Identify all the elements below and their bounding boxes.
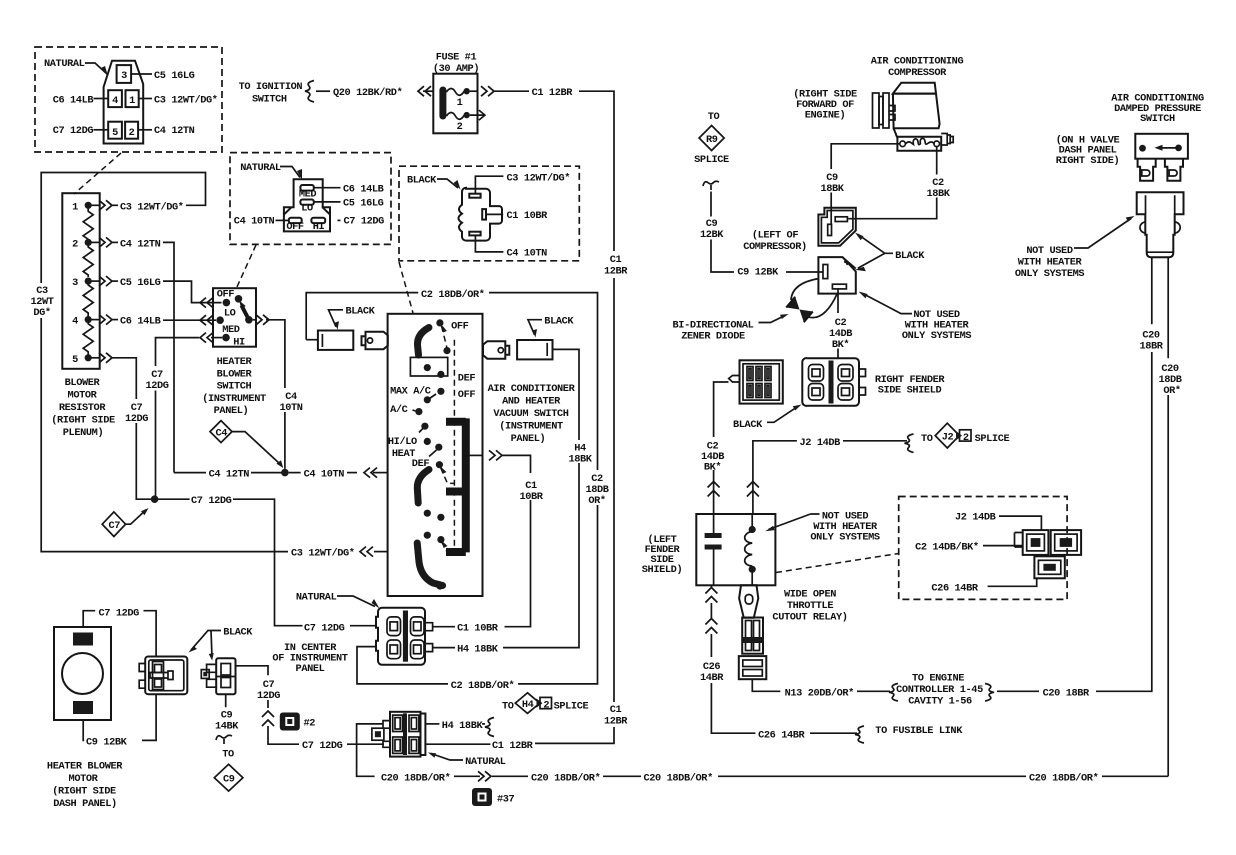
svg-text:TO FUSIBLE LINK: TO FUSIBLE LINK (875, 725, 963, 737)
switch LO terminal (216, 308, 235, 325)
wire C9 14BK to C9 splice (225, 694, 227, 707)
pressure switch prong left (1138, 159, 1156, 181)
svg-text:TO: TO (708, 111, 720, 123)
svg-text:C7 12DG: C7 12DG (191, 495, 232, 507)
pin 2 node (72, 238, 92, 250)
wire J2 14DB (753, 434, 914, 514)
half bracket (ignition) (305, 81, 314, 102)
svg-text:C7: C7 (109, 520, 121, 532)
wire C20 18BR (pressure switch left) (1150, 258, 1153, 692)
svg-text:12DG: 12DG (125, 413, 148, 425)
dashed leader box B to heater switch (237, 245, 257, 288)
pin slot C4 (469, 232, 480, 236)
page marker #2 (280, 713, 315, 731)
wire C9 12BK (motor bottom bracket) (83, 694, 156, 748)
svg-text:NATURAL: NATURAL (296, 592, 337, 604)
svg-text:ZENER DIODE: ZENER DIODE (681, 331, 745, 343)
svg-text:12BR: 12BR (604, 716, 628, 728)
wire H4 18BK from right connector (433, 349, 579, 655)
svg-text:RIGHT SIDE): RIGHT SIDE) (1056, 155, 1120, 167)
wire C4 12TN from pin2 down (92, 237, 175, 472)
svg-text:C4 10TN: C4 10TN (507, 247, 548, 259)
svg-text:BLOWER: BLOWER (217, 368, 253, 380)
vac switch small rect port (410, 357, 447, 376)
svg-text:C7 12DG: C7 12DG (99, 608, 140, 620)
svg-text:PANEL): PANEL) (214, 405, 249, 417)
label C1 10BR (vertical) (519, 480, 543, 503)
connector black single (left of vac switch) (306, 331, 353, 350)
svg-text:#2: #2 (304, 718, 316, 730)
svg-text:2: 2 (963, 432, 969, 444)
svg-text:BK*: BK* (704, 462, 722, 474)
relay capacitor plates (705, 514, 722, 585)
wire C9 12BK to plug (711, 192, 823, 279)
wire H4 18BK (relay connector to splice) (425, 718, 494, 737)
label C1 12BR (vertical, upper) (604, 254, 628, 278)
svg-text:2: 2 (457, 121, 463, 133)
detail connector cluster (1015, 530, 1082, 578)
svg-text:10BR: 10BR (519, 491, 543, 503)
label C7 12DG (pin5 wire) (125, 402, 148, 425)
heater blower motor M1 (54, 627, 111, 720)
wire MED pin to C6 14LB (314, 183, 384, 195)
svg-text:THROTTLE: THROTTLE (787, 600, 833, 612)
label C7 12DG (HI pin) (338, 216, 385, 228)
connector plug lower (compressor harness) (818, 257, 855, 294)
connector view box (natural, blower resistor connector) (35, 47, 222, 152)
svg-text:NATURAL: NATURAL (240, 162, 281, 174)
wire pin3 to C5 16LG (131, 70, 195, 82)
instrument connector caption (272, 642, 347, 675)
svg-text:HI: HI (233, 336, 245, 348)
zener diode VR1 (786, 297, 813, 323)
svg-text:12BK: 12BK (700, 229, 724, 241)
svg-text:OFF: OFF (286, 221, 304, 233)
svg-text:C4 12TN: C4 12TN (209, 469, 250, 481)
connector fender black 4-pin (729, 360, 783, 403)
svg-text:AIR CONDITIONER: AIR CONDITIONER (488, 383, 576, 395)
label NOT USED WITH HEATER ONLY SYSTEMS (pressure switch) (1015, 216, 1135, 280)
break symbol (C9 12BK) (703, 181, 719, 190)
svg-text:COMPRESSOR): COMPRESSOR) (743, 241, 807, 253)
svg-text:C2 18DB/OR*: C2 18DB/OR* (451, 680, 515, 692)
svg-text:18BK: 18BK (820, 183, 844, 195)
wire C3 12WT/DG* (box C) (475, 173, 570, 194)
label RIGHT FENDER SIDE SHIELD (875, 374, 946, 397)
vac switch lever low (442, 541, 455, 553)
svg-text:SHIELD): SHIELD) (642, 564, 682, 576)
label NATURAL (instrument connector) (296, 592, 380, 609)
svg-text:C26 14BR: C26 14BR (931, 582, 978, 594)
svg-text:WIDE OPEN: WIDE OPEN (784, 589, 836, 601)
relay plug below (739, 585, 758, 618)
svg-text:1: 1 (72, 201, 78, 213)
svg-text:C7 12DG: C7 12DG (302, 740, 343, 752)
svg-text:12DG: 12DG (145, 380, 168, 392)
label C2 14DB BK* (829, 317, 852, 351)
label BLACK (right connector) (528, 316, 574, 338)
svg-text:2: 2 (543, 700, 549, 712)
heater switch caption (202, 356, 266, 417)
WOT cutout relay K1 (696, 514, 775, 585)
wire C2 18DB/OR* top (306, 289, 597, 692)
svg-text:FUSE #1: FUSE #1 (436, 52, 477, 64)
label NATURAL (box A) (44, 58, 108, 76)
svg-text:H4 18BK: H4 18BK (442, 720, 484, 732)
svg-text:12BR: 12BR (604, 266, 628, 278)
vac switch internal labels (388, 321, 475, 470)
svg-text:HI: HI (313, 221, 325, 233)
svg-text:14BR: 14BR (700, 672, 724, 684)
wire C4 10TN (box C) (475, 235, 547, 259)
svg-text:18BK: 18BK (568, 454, 592, 466)
svg-text:ONLY SYSTEMS: ONLY SYSTEMS (902, 330, 972, 342)
blower motor resistor body (62, 193, 99, 369)
label C2 18DB OR* (vertical) (585, 473, 608, 507)
vac switch label pointer lines (413, 394, 437, 457)
vac switch internal valve track (dashed) (453, 340, 455, 547)
svg-text:C6 14LB: C6 14LB (343, 183, 384, 195)
svg-text:OFF: OFF (217, 289, 235, 301)
label TO (C9 splice) (222, 749, 234, 761)
svg-text:C7 12DG: C7 12DG (304, 623, 345, 635)
svg-text:J2: J2 (942, 432, 954, 444)
vac switch lever top (442, 326, 448, 349)
connector body A (104, 61, 144, 144)
heater blower switch box (213, 288, 256, 347)
svg-text:C3 12WT/DG*: C3 12WT/DG* (120, 201, 184, 213)
label C20 18DB OR* (vertical) (1158, 363, 1181, 397)
compressor body (893, 83, 941, 151)
pin slot C3 (469, 194, 480, 198)
detail wire C26 14BR (931, 578, 1036, 594)
wire C20 18DB/OR* (pressure switch right) (1167, 258, 1169, 777)
wire switch output to C4 10TN vertical (253, 315, 285, 469)
connector body B (284, 179, 330, 231)
page marker #37 (472, 788, 515, 806)
pin 5 node (72, 354, 92, 366)
pin 1 (126, 90, 139, 107)
svg-text:SWITCH: SWITCH (1140, 113, 1175, 125)
svg-text:C4 12TN: C4 12TN (154, 125, 195, 137)
pin 3 (117, 65, 132, 83)
svg-text:C2 14DB/BK*: C2 14DB/BK* (915, 542, 979, 554)
wire C1 12BR from fuse pin1 (470, 86, 614, 743)
fuse element bar (439, 87, 446, 120)
svg-text:R9: R9 (706, 134, 718, 146)
svg-text:LO: LO (301, 202, 313, 214)
svg-text:RESISTOR: RESISTOR (59, 402, 106, 414)
wire C7 12DG (motor top bracket) (83, 608, 156, 657)
svg-text:C26 14BR: C26 14BR (758, 729, 805, 741)
svg-text:BLACK: BLACK (223, 627, 253, 639)
svg-text:(LEFT OF: (LEFT OF (752, 230, 798, 242)
svg-text:PANEL: PANEL (296, 663, 325, 675)
svg-text:J2 14DB: J2 14DB (955, 512, 996, 524)
svg-text:C7 12DG: C7 12DG (53, 125, 94, 137)
label ON H VALVE DASH PANEL RIGHT SIDE (1056, 134, 1120, 167)
wire C7 12DG to pin 5 (53, 125, 108, 137)
splice symbol R9 (694, 126, 729, 167)
label RIGHT SIDE FORWARD OF ENGINE (793, 89, 857, 122)
svg-text:12DG: 12DG (257, 690, 280, 702)
svg-text:ONLY SYSTEMS: ONLY SYSTEMS (1015, 268, 1085, 280)
label LEFT FENDER SIDE SHIELD (642, 534, 682, 576)
label TO IGNITION SWITCH (239, 81, 303, 106)
svg-text:ENGINE): ENGINE) (805, 110, 845, 122)
junction node C4 (281, 469, 289, 477)
svg-text:OR*: OR* (588, 495, 606, 507)
label WIDE OPEN THROTTLE CUTOUT RELAY (772, 589, 847, 624)
svg-text:ONLY SYSTEMS: ONLY SYSTEMS (810, 532, 880, 544)
connector fender natural 4-pin (802, 358, 865, 406)
svg-text:2: 2 (129, 127, 135, 139)
relay coil (745, 514, 756, 585)
svg-text:TO ENGINE: TO ENGINE (912, 673, 964, 685)
svg-text:DEF: DEF (458, 373, 476, 385)
wire C3 12WT/DG* from pin1 up-around left side (41, 173, 288, 552)
pin 5 (108, 122, 122, 139)
pin 4 (108, 90, 122, 107)
fuse F1 label (433, 52, 479, 76)
svg-text:HEATER BLOWER: HEATER BLOWER (47, 761, 123, 773)
svg-text:WITH HEATER: WITH HEATER (1018, 257, 1083, 269)
label C26 14BR (vertical) (700, 661, 724, 684)
splice symbol C7 (102, 508, 148, 537)
svg-text:C4 12TN: C4 12TN (120, 238, 161, 250)
vacuum switch body (388, 314, 483, 596)
svg-text:SPLICE: SPLICE (975, 433, 1010, 445)
connector view box C (black, vacuum switch connector) (399, 166, 579, 261)
svg-text:C1 12BR: C1 12BR (492, 740, 534, 752)
svg-text:PLENUM): PLENUM) (63, 427, 103, 439)
svg-text:CAVITY 1-56: CAVITY 1-56 (908, 696, 972, 708)
pin 1 node (72, 201, 92, 213)
pin LO (300, 200, 313, 215)
compressor pulley (873, 93, 896, 128)
dashed leader box A to resistor (74, 153, 121, 194)
svg-text:DG*: DG* (33, 307, 51, 319)
label LEFT OF COMPRESSOR (743, 230, 807, 254)
label C9 18BK (820, 172, 844, 195)
label C7 12DG (HI wire) (145, 369, 168, 392)
svg-text:4: 4 (112, 95, 118, 107)
svg-text:10TN: 10TN (279, 402, 302, 414)
svg-text:4: 4 (72, 316, 78, 328)
pin slot C1 (482, 209, 486, 220)
svg-text:BLACK: BLACK (733, 419, 763, 431)
resistor element zigzag 1-2 (83, 205, 93, 242)
svg-text:C1 10BR: C1 10BR (507, 210, 549, 222)
svg-text:1: 1 (457, 97, 463, 109)
svg-text:OR*: OR* (1163, 385, 1181, 397)
svg-text:MOTOR: MOTOR (68, 390, 98, 402)
svg-text:SIDE SHIELD: SIDE SHIELD (878, 385, 942, 397)
svg-text:C4 10TN: C4 10TN (304, 469, 345, 481)
svg-text:J2 14DB: J2 14DB (800, 437, 841, 449)
wire C7 12DG (harness to relay connector) (236, 666, 385, 752)
pin HI (311, 218, 325, 233)
svg-text:5: 5 (112, 127, 118, 139)
svg-text:C4: C4 (216, 428, 228, 440)
svg-text:2: 2 (72, 238, 78, 250)
connector relay 4-pin grid (372, 712, 426, 757)
svg-text:C5 16LG: C5 16LG (154, 70, 195, 82)
svg-text:C20 18DB/OR*: C20 18DB/OR* (644, 772, 714, 784)
pin OFF (286, 218, 304, 233)
svg-text:SWITCH: SWITCH (252, 94, 287, 106)
switch rotor lever (235, 295, 253, 324)
label BLACK (fender connector) (733, 405, 802, 432)
svg-text:CUTOUT RELAY): CUTOUT RELAY) (772, 612, 847, 624)
svg-text:MAX A/C: MAX A/C (390, 386, 431, 398)
wire C2 18BK (compressor to plug) (848, 147, 937, 219)
svg-text:C3 12WT/DG*: C3 12WT/DG* (507, 173, 571, 185)
svg-text:NATURAL: NATURAL (465, 756, 506, 768)
label C1 12BR (vertical, lower) (604, 704, 628, 728)
wire C6 14LB from pin4 to heater switch LO (92, 315, 217, 328)
label NATURAL (box B) (240, 162, 302, 180)
resistor caption (51, 377, 115, 439)
connector black square (motor) (139, 657, 187, 695)
svg-text:C9 12BK: C9 12BK (86, 736, 128, 748)
connector C26 stack lower (739, 656, 767, 679)
svg-text:BK*: BK* (832, 339, 850, 351)
vac switch mid arc (417, 470, 429, 504)
vac switch top arc (417, 328, 429, 356)
fuse element 2 (446, 112, 470, 133)
pressure switch connector (1137, 192, 1184, 257)
svg-text:C20 18DB/OR*: C20 18DB/OR* (1029, 772, 1099, 784)
connector body C (459, 188, 503, 241)
svg-text:1: 1 (129, 95, 135, 107)
wire C20 18DB/OR* (relay connector drop) (357, 724, 383, 776)
connector instrument panel 4-pin (376, 608, 433, 665)
svg-text:SPLICE: SPLICE (694, 154, 729, 166)
label C3 12WT DG* (left vertical) (30, 285, 53, 319)
label C2 14DB BK* (vertical) (701, 441, 724, 474)
pressure switch S1 body (1135, 134, 1188, 159)
svg-text:TO: TO (921, 433, 933, 445)
pin 2 (125, 122, 138, 139)
svg-text:C20 18DB/OR*: C20 18DB/OR* (381, 772, 451, 784)
svg-text:3: 3 (121, 70, 127, 82)
svg-text:BLACK: BLACK (544, 316, 574, 328)
svg-text:NOT USED: NOT USED (1026, 245, 1072, 257)
vac switch bottom arc (417, 543, 442, 586)
detail wire J2 14DB (955, 512, 1041, 531)
wire C26 14BR (relay left leg) (705, 585, 963, 743)
switch HI label (233, 336, 245, 348)
svg-text:#37: #37 (497, 794, 515, 806)
wire C7 12DG from pin5 down (92, 353, 152, 499)
splice symbol C4 (210, 421, 283, 468)
svg-text:CONTROLLER 1-45: CONTROLLER 1-45 (896, 684, 983, 696)
detail wire C2 14DB/BK* (915, 542, 1023, 554)
label NOT USED WITH HEATER ONLY SYSTEMS (plug) (859, 292, 972, 343)
svg-text:HEATER: HEATER (217, 356, 253, 368)
wire C2 14DB/BK* (plug to fender connector) (837, 289, 839, 358)
pressure switch prong right (1165, 159, 1183, 181)
svg-text:C20 18DB/OR*: C20 18DB/OR* (531, 772, 601, 784)
svg-text:VACUUM SWITCH: VACUUM SWITCH (493, 408, 568, 420)
label BLACK (box C) (407, 174, 461, 189)
resistor element zigzag 2-3 (83, 242, 93, 277)
spade lug left (362, 332, 388, 350)
svg-text:C9: C9 (223, 774, 235, 786)
svg-text:C20 18BR: C20 18BR (1043, 687, 1090, 699)
label BLACK (motor connectors) (189, 627, 254, 661)
wire C4 10TN to OFF pin (234, 216, 289, 228)
compressor terminals and coil (900, 138, 940, 146)
wire C3 label + arrow into vacuum switch (291, 547, 388, 560)
compressor caption (871, 56, 964, 80)
svg-text:BLACK: BLACK (346, 306, 376, 318)
svg-text:COMPRESSOR: COMPRESSOR (888, 67, 947, 79)
connector view box B (natural, heater switch connector) (230, 153, 391, 245)
svg-text:BLOWER: BLOWER (65, 377, 101, 389)
wire C6 14LB to pin 4 (53, 94, 108, 106)
svg-text:TO IGNITION: TO IGNITION (239, 81, 303, 93)
svg-text:3: 3 (72, 277, 78, 289)
pressure switch caption (1111, 93, 1204, 126)
svg-text:C5 16LG: C5 16LG (343, 197, 384, 209)
label C2 18BK (926, 177, 950, 200)
svg-text:14BK: 14BK (215, 721, 239, 733)
svg-text:(INSTRUMENT: (INSTRUMENT (202, 393, 266, 405)
label TO H4 2 SPLICE (502, 693, 588, 714)
svg-text:5: 5 (72, 354, 78, 366)
label H4 18BK (vertical) (568, 443, 592, 466)
label C9 12BK (vertical) (700, 218, 724, 241)
vac switch lever def (441, 467, 455, 483)
pin 3 node (72, 277, 92, 289)
svg-text:C3 12WT/DG*: C3 12WT/DG* (154, 94, 218, 106)
resistor element zigzag 4-5 (83, 320, 93, 355)
label TO R9 SPLICE (708, 111, 720, 123)
pin MED (299, 185, 317, 201)
connector plug upper (compressor clutch) (818, 208, 855, 246)
svg-text:(RIGHT SIDE: (RIGHT SIDE (51, 415, 115, 427)
svg-text:MOTOR: MOTOR (69, 773, 99, 785)
svg-text:PANEL): PANEL) (511, 433, 546, 445)
wire C4 12TN horizontal run to junction (174, 469, 283, 481)
vac switch port dots (415, 319, 450, 589)
svg-text:H4 18BK: H4 18BK (457, 644, 499, 656)
wire C1 10BR from vac switch DEF output (433, 450, 531, 634)
motor caption (47, 761, 123, 811)
svg-text:DASH PANEL): DASH PANEL) (53, 798, 117, 810)
break (J2 wire) (747, 482, 759, 497)
wire N13 20DB/OR* to engine controller (752, 673, 1152, 708)
break (C2 wire) (708, 482, 720, 497)
label NATURAL (relay connector) (428, 753, 506, 769)
svg-text:BLACK: BLACK (895, 250, 925, 262)
label BLACK (compressor plugs) (855, 233, 925, 272)
svg-text:A/C: A/C (390, 404, 408, 416)
label NOT USED WITH HEATER ONLY SYSTEMS (relay) (765, 511, 880, 544)
connector C26 stack upper (742, 618, 763, 654)
wire C20 18DB/OR* bottom run (381, 771, 1168, 784)
break (C7 12DG wire) (262, 711, 274, 726)
compressor rear fitting (941, 134, 953, 146)
svg-text:SPLICE: SPLICE (554, 701, 589, 713)
label C9 14BK (215, 710, 239, 733)
svg-text:C1 10BR: C1 10BR (457, 623, 499, 635)
junction node C7 (151, 495, 159, 503)
vac switch thick bracket (446, 418, 466, 552)
label C4 10TN (switch output) (279, 391, 302, 414)
